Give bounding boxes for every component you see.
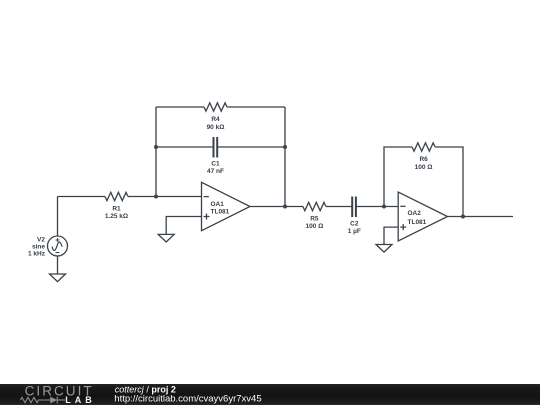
svg-text:TL081: TL081 (408, 219, 427, 226)
svg-text:R1: R1 (112, 206, 121, 213)
svg-text:V2: V2 (37, 236, 45, 243)
svg-text:TL081: TL081 (211, 208, 230, 215)
svg-text:OA1: OA1 (211, 201, 225, 208)
svg-text:OA2: OA2 (408, 210, 422, 217)
svg-text:C2: C2 (350, 221, 359, 228)
svg-text:100 Ω: 100 Ω (415, 164, 433, 171)
svg-text:90 kΩ: 90 kΩ (207, 124, 225, 131)
svg-text:R5: R5 (310, 216, 319, 223)
svg-text:sine: sine (32, 243, 45, 250)
svg-text:100 Ω: 100 Ω (305, 223, 323, 230)
svg-text:LAB: LAB (65, 395, 96, 405)
svg-text:1 µF: 1 µF (348, 228, 361, 235)
svg-text:R6: R6 (419, 156, 428, 163)
svg-text:C1: C1 (211, 161, 220, 168)
svg-text:1.25 kΩ: 1.25 kΩ (105, 213, 128, 220)
svg-text:47 nF: 47 nF (207, 168, 224, 175)
svg-text:1 kHz: 1 kHz (28, 250, 46, 257)
svg-text:R4: R4 (211, 116, 220, 123)
svg-text:http://circuitlab.com/cvayv6yr: http://circuitlab.com/cvayv6yr7xv45 (114, 394, 261, 405)
